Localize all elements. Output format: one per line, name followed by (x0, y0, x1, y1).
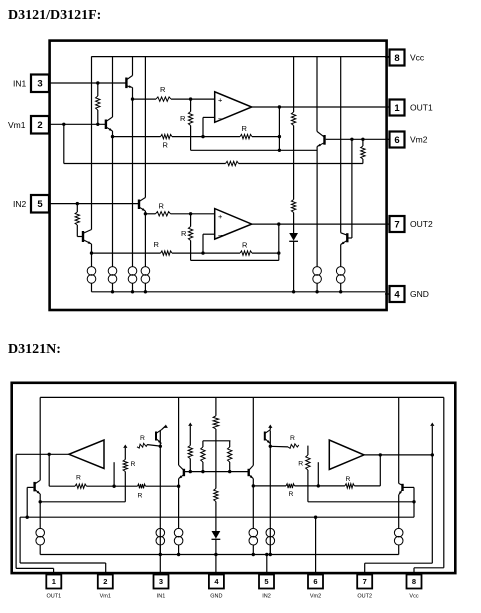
node gnd I2 (111, 290, 114, 293)
node pin5-R junction (76, 202, 79, 205)
IC outline box (D3121/D3121F) (50, 41, 387, 310)
wire bridge (203, 440, 231, 442)
wire A1 fb corner (48, 454, 50, 486)
wire Q1 collector (132, 57, 134, 76)
node A1 fb tap (48, 453, 51, 456)
wire GND pin4 drop (215, 555, 217, 575)
wire T7 emitter drop (39, 494, 41, 529)
wire Vm tie line N (20, 516, 414, 518)
wire feedback2 vertical (278, 224, 280, 260)
node T7 base on Vm line (26, 516, 29, 519)
wire OUT1 line (252, 106, 385, 108)
wire bias mid2 (293, 213, 295, 234)
resistor R bridge right (228, 447, 232, 462)
svg-text:IN1: IN1 (157, 593, 166, 599)
pin 8 box (390, 50, 405, 66)
wire A1 minus route (113, 462, 115, 486)
wire GND rail (92, 291, 386, 293)
svg-text:IN2: IN2 (13, 199, 27, 209)
wire opamp1 +input line (133, 98, 157, 100)
wire I4 to gnd (144, 283, 146, 292)
svg-text:OUT1: OUT1 (46, 593, 61, 599)
current src arrow 2 (188, 423, 192, 426)
wire T6 collector up (340, 57, 342, 233)
wire center chain top (215, 397, 217, 415)
wire I1N corner to rail (39, 545, 41, 555)
resistor R fbA2 (345, 484, 355, 488)
resistor R in2 (156, 212, 171, 216)
svg-text:IN1: IN1 (13, 79, 27, 89)
resistor R opamp2 vert (190, 214, 192, 227)
current source I1 (87, 267, 96, 276)
wire I4N stub (252, 545, 254, 555)
wire I3N stub (178, 545, 180, 555)
wire Vm1 tie vertical (63, 124, 65, 163)
node pin6 tap (314, 516, 317, 519)
svg-text:Vm2: Vm2 (310, 593, 321, 599)
current src arrow 1 (123, 445, 127, 448)
current source I4N (249, 528, 258, 537)
resistor R bridge left (201, 447, 205, 462)
op-amp U1 (215, 92, 252, 123)
wire center chain mid (215, 429, 217, 489)
wire T5 emitter drop (316, 147, 318, 267)
wire opamp1 -input (203, 116, 215, 118)
wire A2 output line (364, 454, 432, 456)
resistor R fb1b (240, 134, 252, 138)
wire Q3 collector (144, 57, 146, 198)
node I5N rail (269, 553, 272, 556)
transistor T11 (mirrored) (401, 484, 403, 491)
node Q2 emitter (111, 135, 114, 138)
svg-text:R: R (140, 435, 145, 442)
wire T8 collector (178, 397, 180, 465)
node -input junction2 (201, 251, 204, 254)
wire T5 collector up (316, 57, 318, 132)
wire T11 base loop (404, 486, 415, 488)
pin 6 box (390, 132, 405, 148)
node I3N rail (177, 553, 180, 556)
wire Q1N collector stub (162, 426, 166, 430)
node OUT1 feedback tap (278, 105, 281, 108)
transistor T9 (247, 469, 249, 476)
node y150 fb junction (278, 149, 281, 152)
transistor T5 (323, 135, 325, 145)
node A2 fb tap (379, 453, 382, 456)
node diode rail (214, 553, 217, 556)
wire I6N corner (398, 545, 400, 555)
node Q3 emitter (144, 212, 147, 215)
pin 8 box (N) (407, 575, 422, 589)
svg-text:6: 6 (394, 135, 399, 146)
svg-text:3: 3 (37, 79, 42, 90)
svg-text:IN2: IN2 (262, 593, 271, 599)
wire I2 to gnd (112, 283, 114, 292)
node A2 minus junction (317, 484, 320, 487)
wire A2 fb vertical (379, 455, 381, 486)
svg-text:Vm1: Vm1 (8, 120, 26, 130)
node pin3-R junction (96, 81, 99, 84)
op-amp A2 (329, 440, 364, 470)
wire feedback1 vertical (278, 107, 280, 150)
node Vm1 tie junction (62, 123, 65, 126)
wire emitter line L (40, 501, 125, 503)
svg-text:R: R (242, 241, 248, 250)
pin 1 box (390, 100, 405, 116)
wire Q4 emitter drop (91, 244, 93, 267)
svg-text:Vm1: Vm1 (100, 593, 111, 599)
node OUT2 feedback tap (277, 222, 280, 225)
resistor R inA1 diag (137, 443, 148, 448)
node gnd I3 (131, 290, 134, 293)
resistor R Vm2 drop (362, 139, 364, 146)
svg-text:7: 7 (394, 219, 399, 230)
node T9 emitter tap (252, 484, 255, 487)
resistor R IN2 (76, 204, 78, 212)
transistor Q3N (264, 432, 266, 441)
wire feedback1 R line (113, 136, 161, 138)
resistor R arrow1 (123, 460, 127, 472)
wire A2 plus line (270, 445, 288, 448)
node Vm2 R tap (361, 138, 364, 141)
current source I6N (394, 528, 403, 537)
wire Vm tie horizontal (64, 163, 226, 165)
pin 7 box (390, 216, 405, 232)
wire T7 base stub (27, 486, 33, 488)
svg-text:2: 2 (103, 577, 107, 586)
wire Vcc rail (91, 56, 389, 58)
pin 3 box (31, 75, 49, 93)
current source I4 (141, 267, 150, 276)
transistor T6 (346, 233, 348, 242)
svg-text:8: 8 (412, 577, 416, 586)
diode D1 (289, 233, 298, 241)
pin 6 box (N) (308, 575, 323, 589)
wire pin6 drop (315, 517, 317, 574)
resistor R fb2a (161, 251, 173, 255)
op-amp U2 (215, 209, 252, 240)
node +input R junction (189, 97, 192, 100)
wire Q4 collector up (91, 57, 93, 230)
wire bias mid (293, 126, 295, 200)
current source I1N (36, 528, 45, 537)
resistor R Vm2N (306, 455, 310, 470)
svg-text:R: R (160, 85, 166, 94)
current source I5N (266, 528, 275, 537)
resistor R IN1-Vm1 (97, 83, 99, 96)
svg-text:GND: GND (210, 593, 222, 599)
svg-text:5: 5 (264, 577, 268, 586)
wire pin6 stub (385, 138, 390, 140)
node -input junction1 (201, 135, 204, 138)
node T7 emitter tap (39, 500, 42, 503)
wire base line L (185, 471, 249, 473)
svg-text:OUT2: OUT2 (357, 593, 372, 599)
wire Vm1 pin2 line (49, 123, 106, 125)
wire pin3 vertical (159, 431, 161, 575)
pin 4 box (390, 286, 405, 302)
svg-text:R: R (289, 491, 294, 498)
resistor R inA2b (286, 484, 295, 488)
svg-text:2: 2 (37, 120, 42, 131)
svg-text:R: R (346, 476, 351, 483)
node gnd bias (292, 290, 295, 293)
wire Vcc route N (443, 397, 445, 567)
diode D1N (212, 531, 221, 539)
resistor bias R1 (291, 112, 295, 126)
pin 7 box (N) (357, 575, 372, 589)
wire A2 minus route (317, 462, 319, 486)
wire I5 to gnd (316, 283, 318, 292)
resistor R in1 (156, 97, 171, 101)
wire Q2 emitter drop (112, 131, 114, 267)
wire T9 emitter drop (252, 479, 254, 529)
wire pin4 stub (385, 293, 390, 295)
op-amp A1 (69, 440, 104, 469)
wire OUT1 route (15, 454, 17, 568)
node I2N rail (159, 553, 162, 556)
node Vm2 T6 tap (350, 138, 353, 141)
svg-text:D3121N:: D3121N: (8, 342, 61, 357)
pin 5 box (N) (259, 575, 274, 589)
resistor R arrow2 (188, 445, 192, 458)
svg-text:3: 3 (159, 577, 163, 586)
wire pin5 vertical (269, 431, 271, 555)
wire Vm2R top (307, 446, 309, 455)
svg-text:Vm2: Vm2 (410, 135, 428, 145)
svg-text:+: + (218, 212, 223, 221)
node fb1 cross (278, 135, 281, 138)
pin 4 box (N) (209, 575, 224, 589)
wire T11 emitter drop (398, 495, 400, 529)
pin 2 box (N) (98, 575, 113, 589)
node Q4 emitter (90, 251, 93, 254)
svg-text:7: 7 (363, 577, 367, 586)
resistor R center tall (213, 416, 219, 429)
wire OUT2 line (252, 223, 385, 225)
transistor Q3 (138, 200, 140, 210)
svg-text:–: – (218, 114, 223, 123)
current source I3 (128, 267, 137, 276)
node +input2 R junction (189, 212, 192, 215)
wire I3 to gnd (132, 283, 134, 292)
svg-text:1: 1 (394, 103, 400, 114)
resistor R inA2 diag (288, 444, 299, 449)
pin 5 box (31, 195, 49, 213)
wire IN1 pin3 line (49, 82, 126, 84)
pin 2 box (31, 116, 49, 134)
node fb2 cross (277, 251, 280, 254)
svg-text:R: R (76, 475, 81, 482)
current source I2N (156, 528, 165, 537)
node bl2 (201, 470, 204, 473)
svg-text:–: – (218, 231, 223, 240)
wire gnd rail N (40, 554, 399, 556)
wire T11 collector (398, 397, 400, 483)
wire feedback2 R line (92, 252, 161, 254)
wire T8 emitter drop (178, 479, 180, 529)
pin 3 box (N) (154, 575, 169, 589)
svg-text:R: R (290, 435, 295, 442)
pin 1 box (N) (46, 575, 61, 589)
svg-text:R: R (159, 202, 165, 211)
svg-text:Vcc: Vcc (409, 593, 418, 599)
svg-text:R: R (242, 124, 248, 133)
transistor Q1N (155, 432, 157, 441)
node bl1 (189, 470, 192, 473)
resistor R fb1a (161, 134, 173, 138)
svg-text:R: R (181, 229, 187, 238)
wire A1 plus line (148, 445, 161, 447)
current source I5 (313, 267, 322, 276)
svg-text:1: 1 (52, 577, 56, 586)
wire I2N stub (159, 545, 161, 555)
node gnd I4 (144, 290, 147, 293)
wire opamp2 -input (203, 233, 215, 235)
wire Vm2 to T6 base (351, 139, 353, 238)
node OUT2 junction (431, 453, 434, 456)
node A2 plus tap (269, 445, 272, 448)
wire IN2 pin5 line (49, 203, 139, 205)
wire A1 output line (16, 453, 69, 455)
transistor Q1 (125, 78, 127, 89)
resistor R opamp1 vert (190, 99, 192, 111)
node pin2-R junction (96, 123, 99, 126)
node T8 emitter tap (177, 485, 180, 488)
wire Vcc rail N (40, 396, 444, 398)
wire Q3 emitter drop (144, 211, 146, 267)
IC outline box (D3121N) (12, 383, 456, 573)
svg-text:5: 5 (37, 199, 43, 210)
wire pin1 stub (385, 106, 390, 108)
svg-text:R: R (138, 493, 143, 500)
wire Q3N collector stub (269, 426, 271, 430)
node bl3 (228, 470, 231, 473)
wire I1 to gnd corner (91, 283, 93, 292)
svg-text:GND: GND (410, 289, 429, 299)
current source I2 (108, 267, 117, 276)
transistor Q2 (105, 120, 107, 130)
node Vm2line-x414 (412, 500, 415, 503)
wire center to diode (215, 502, 217, 532)
wire OUT2 route (430, 423, 434, 426)
wire T7 collector (39, 397, 41, 480)
svg-text:4: 4 (394, 289, 400, 300)
node A1 minus junction (112, 485, 115, 488)
node gnd I6 (339, 290, 342, 293)
node I4N rail (252, 553, 255, 556)
resistor R fb2b (240, 251, 252, 255)
wire I6 to gnd (340, 283, 342, 292)
resistor R Vm tie (226, 161, 239, 165)
svg-text:R: R (154, 240, 160, 249)
svg-text:OUT1: OUT1 (410, 103, 433, 113)
wire I5N stub (269, 545, 271, 555)
svg-text:R: R (180, 114, 186, 123)
svg-text:R: R (163, 141, 169, 150)
svg-text:D3121/D3121F:: D3121/D3121F: (8, 8, 101, 23)
transistor Q4 (82, 231, 84, 242)
wire Q1 emitter drop (132, 88, 134, 267)
current source I6 (336, 267, 345, 276)
svg-text:OUT2: OUT2 (410, 219, 433, 229)
wire pin7 stub (385, 223, 390, 225)
svg-text:R: R (131, 461, 136, 468)
wire T6 emitter drop (340, 245, 342, 267)
wire T9 collector (252, 397, 254, 465)
wire y150 line (191, 149, 318, 151)
wire fb line A1 (49, 485, 75, 487)
resistor R inA1b (138, 484, 146, 488)
wire pin2 route (19, 517, 21, 563)
wire Q2 collector (112, 57, 114, 117)
transistor T7 (33, 482, 35, 492)
wire fb line A2 (253, 485, 286, 487)
node Q1 emitter (131, 97, 134, 100)
svg-text:6: 6 (313, 577, 317, 586)
resistor R center low (214, 489, 218, 502)
svg-text:8: 8 (394, 53, 399, 64)
wire Q4 base stub (77, 236, 83, 238)
resistor bias R2 (291, 200, 295, 213)
svg-text:Vcc: Vcc (410, 53, 425, 63)
svg-text:R: R (298, 461, 303, 468)
wire Vm2 emitter line R (308, 501, 414, 503)
wire opamp2 +input line (145, 213, 155, 215)
wire bias chain top (293, 57, 295, 112)
resistor R fbA1 (75, 484, 87, 488)
wire y260 line (191, 259, 279, 261)
wire Vm2R bottom (307, 470, 309, 502)
node A1 plus tap (159, 445, 162, 448)
current source I3N (174, 528, 183, 537)
wire Vm2 line (326, 138, 385, 140)
wire pin8 stub (385, 56, 390, 58)
svg-text:+: + (218, 95, 223, 104)
node gnd I5 (315, 290, 318, 293)
transistor T8 (mirrored) (183, 469, 185, 476)
